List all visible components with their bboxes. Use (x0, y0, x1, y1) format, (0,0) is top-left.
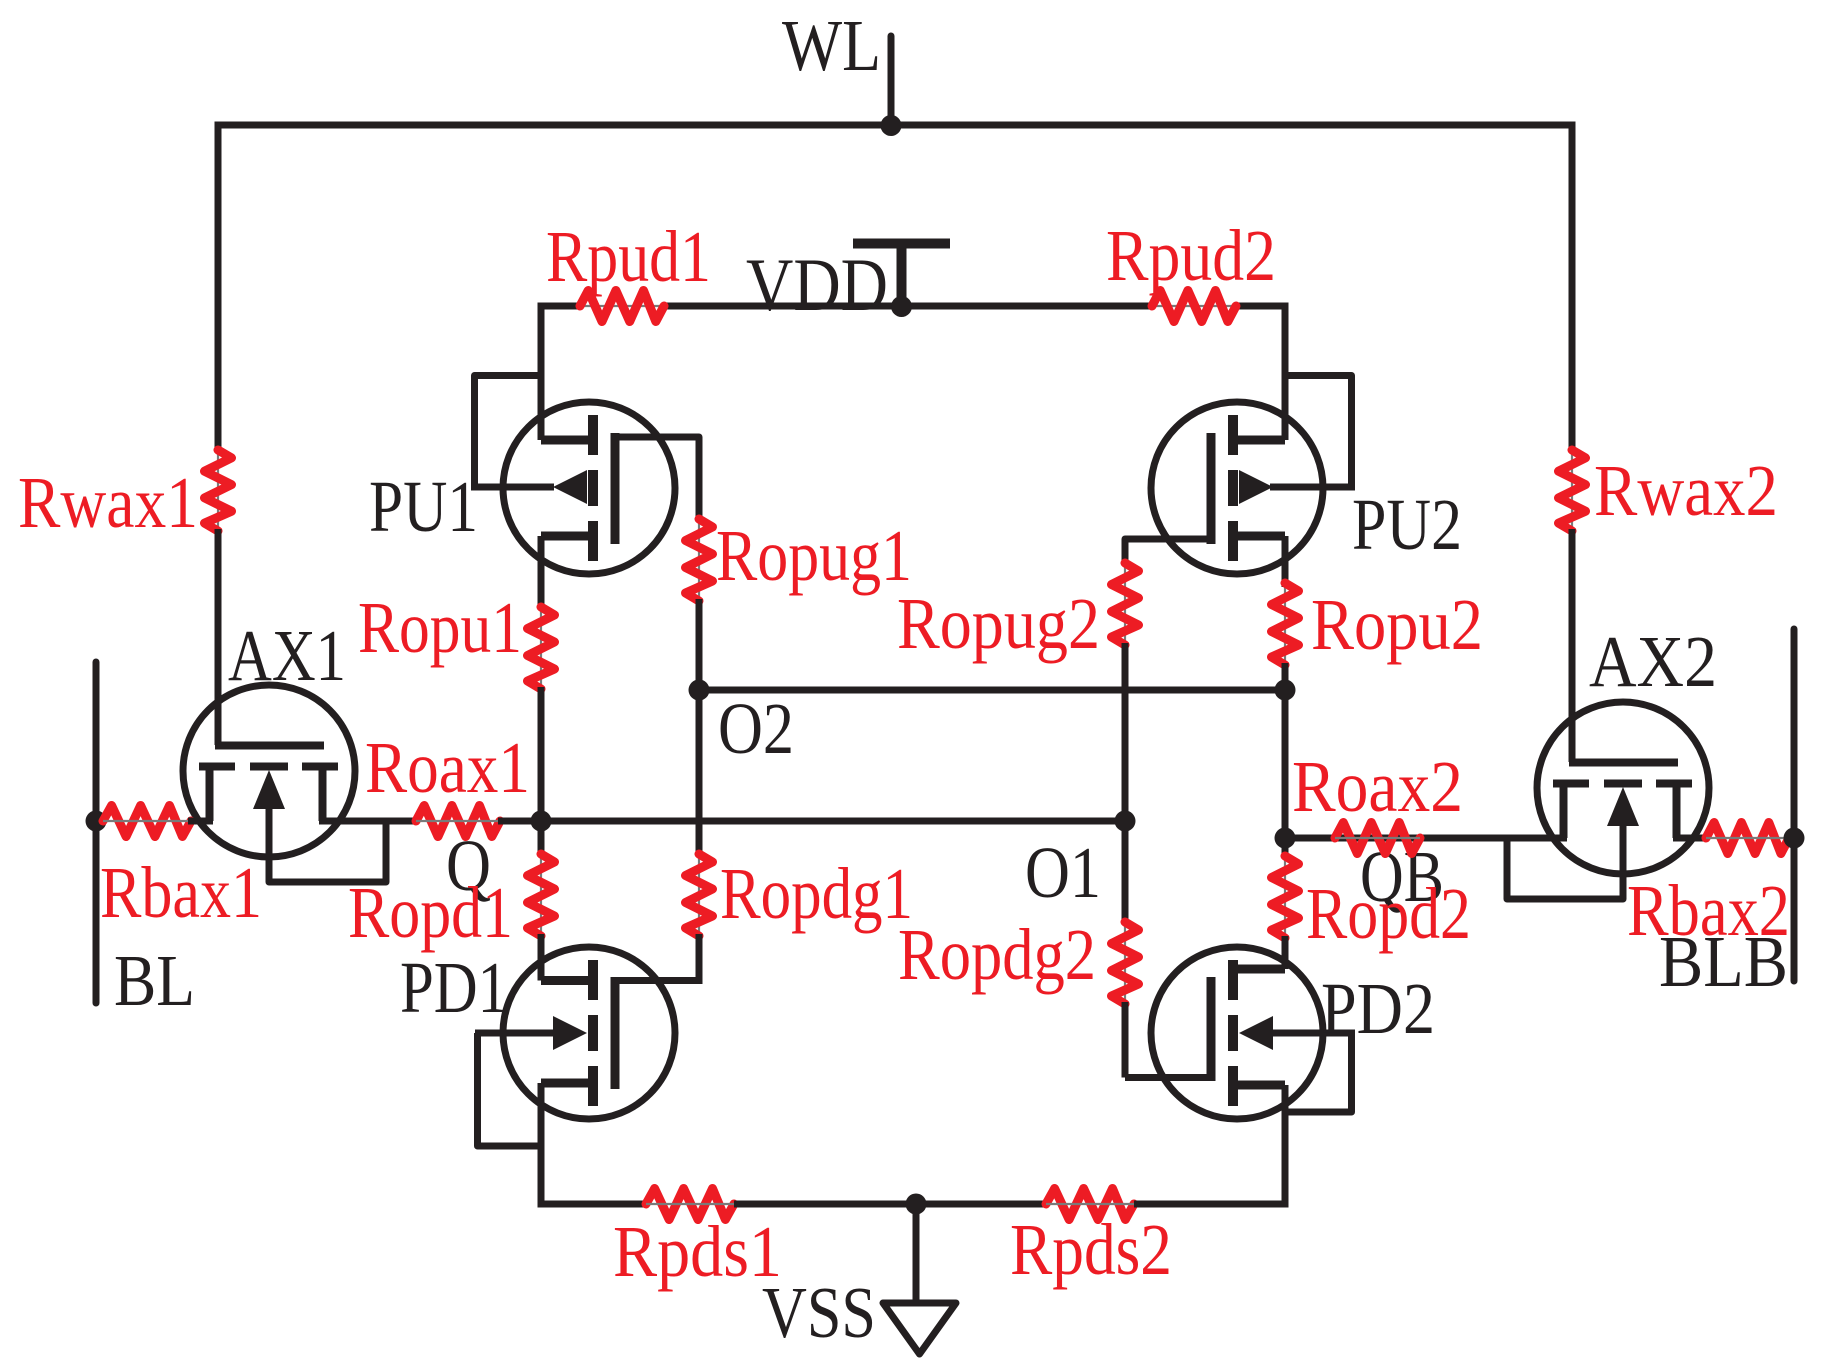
PD1 drain contact (541, 1079, 597, 1088)
svg-text:Ropug2: Ropug2 (897, 583, 1100, 664)
junction O2 left (689, 680, 710, 701)
svg-text:O1: O1 (1025, 832, 1101, 913)
wire PD2 bulk (1270, 1030, 1355, 1037)
wire PD1 gate tap (615, 977, 699, 984)
transistor PU2 circle (1151, 402, 1323, 574)
svg-text:Ropd2: Ropd2 (1306, 873, 1471, 954)
wire QB vertical upper (1282, 663, 1289, 858)
resistor Rbax2 (1706, 823, 1789, 854)
wire VSS rail seg1 (538, 1201, 647, 1208)
PU2 drain contact (1229, 532, 1285, 541)
junction VSS (906, 1194, 927, 1215)
pin Ropug1 underline (698, 519, 700, 601)
PU1 source contact (541, 436, 597, 445)
PD2 channel bar (1228, 960, 1238, 1000)
wire PD1 source up (538, 934, 545, 981)
transistor PD1 circle (503, 947, 675, 1119)
resistor Ropu2 (1272, 583, 1299, 665)
svg-text:WL: WL (782, 5, 881, 86)
AX2 bulk arrow (1607, 787, 1639, 826)
wire O1 rail (498, 818, 1125, 825)
pin Ropdg1 underline (698, 854, 700, 936)
svg-text:PD2: PD2 (1321, 968, 1435, 1049)
wire gate1 low (696, 934, 703, 984)
wire Rbax1 to AX1 (188, 818, 213, 825)
resistor Rpds1 (646, 1189, 734, 1220)
PU1 bulk arrow (553, 470, 587, 504)
PU1 gate plate (611, 433, 620, 544)
wire VSS rail seg3 (1134, 1201, 1289, 1208)
wire PU2 gate tap (1125, 539, 1211, 565)
junction WL (881, 115, 902, 136)
PU1 channel bar (588, 415, 598, 455)
wire PD2 source up (1282, 936, 1289, 969)
wire VDD rail seg1 (541, 303, 580, 310)
wire WL right drop lower (1569, 529, 1576, 762)
pin Ropdg2 underline (1124, 922, 1126, 1004)
junction Q (531, 811, 552, 832)
ground VSS symbol (883, 1303, 956, 1354)
resistor Ropug1 (686, 519, 713, 601)
wire WL stub (888, 36, 895, 125)
wire PU2 source up (1282, 303, 1289, 441)
transistor AX2 circle (1537, 702, 1709, 874)
PD2 source contact (1229, 965, 1285, 974)
AX1 bulk arrow (253, 770, 285, 809)
pin Rpds2 underline (1046, 1203, 1134, 1205)
resistor Rpud1 (580, 291, 664, 322)
resistor Ropd1 (528, 854, 555, 936)
resistor Rpds2 (1046, 1189, 1134, 1220)
pin Rbax1 underline (103, 820, 191, 822)
svg-text:Roax2: Roax2 (1292, 746, 1463, 827)
junction QB (1275, 828, 1296, 849)
junction BLB (1784, 828, 1805, 849)
pin Rwax2 underline (1571, 450, 1573, 531)
junction O2 right (1275, 680, 1296, 701)
power VDD symbol (853, 239, 950, 249)
svg-text:Ropdg2: Ropdg2 (898, 914, 1096, 995)
wire WL right drop upper (1569, 122, 1576, 453)
pin Roax2 underline (1335, 837, 1420, 839)
wire O2 rail (699, 687, 1285, 694)
PD1 gate plate (611, 977, 620, 1089)
wire PU1 drain down (538, 536, 545, 609)
AX2 left contact (1560, 780, 1568, 838)
wire PU2 bulk tie loop (1285, 376, 1352, 488)
svg-text:Ropdg1: Ropdg1 (720, 853, 913, 934)
wire PU2 bulk (1270, 484, 1355, 491)
svg-text:BL: BL (114, 940, 195, 1021)
svg-text:Rpud2: Rpud2 (1106, 215, 1276, 296)
svg-text:PD1: PD1 (400, 947, 508, 1028)
transistor PD2 circle (1151, 947, 1323, 1119)
wire PD1 bulk (475, 1030, 554, 1037)
PD2 drain contact (1229, 1081, 1285, 1090)
pin Ropd2 underline (1284, 856, 1286, 938)
PD2 bulk arrow (1239, 1016, 1273, 1050)
PU1 drain contact (541, 532, 597, 541)
junction O1 (1115, 811, 1136, 832)
PD1 source contact (541, 976, 597, 985)
AX1 left contact (206, 763, 214, 821)
pin Rpud1 underline (580, 305, 664, 307)
transistor AX1 circle (183, 685, 355, 857)
wire WL left drop lower (215, 529, 222, 745)
PU2 source contact (1229, 436, 1285, 445)
AX1 right contact (319, 763, 327, 821)
pin Rpud2 underline (1152, 305, 1236, 307)
resistor Rbax1 (103, 806, 191, 837)
AX1 channel bar (199, 763, 235, 771)
AX2 channel bar (1553, 780, 1589, 788)
svg-text:Rpds2: Rpds2 (1010, 1209, 1172, 1290)
wire PU1 bulk tie loop (475, 376, 542, 488)
svg-text:Rwax2: Rwax2 (1594, 450, 1778, 531)
pin Rbax2 underline (1706, 837, 1789, 839)
transistor PU1 circle (503, 402, 675, 574)
svg-text:Rpud1: Rpud1 (546, 216, 711, 297)
svg-text:VSS: VSS (762, 1272, 876, 1353)
pin Ropu1 underline (540, 607, 542, 689)
wire AX1 bulk tie loop (269, 804, 386, 882)
svg-text:Rpds1: Rpds1 (613, 1211, 782, 1292)
svg-text:Ropug1: Ropug1 (716, 515, 912, 596)
svg-text:Ropu1: Ropu1 (358, 587, 522, 668)
wire PD1 drain down (538, 1083, 545, 1201)
junction BL (86, 811, 107, 832)
wire AX2 bulk tie loop (1507, 821, 1623, 899)
wire PD2 bulk tie loop (1285, 1033, 1352, 1112)
wire gate1 lower mid (696, 688, 703, 856)
svg-text:VDD: VDD (746, 244, 888, 327)
wire gate2 mid (1122, 643, 1129, 924)
resistor Ropdg1 (686, 854, 713, 936)
svg-text:AX1: AX1 (228, 615, 346, 696)
resistor Rwax2 (1559, 450, 1586, 531)
svg-text:Rbax1: Rbax1 (100, 852, 262, 933)
wire PU1 gate tap (615, 437, 699, 521)
PU2 bulk arrow (1239, 470, 1273, 504)
wire gate2 low (1122, 1002, 1129, 1078)
PD2 gate plate (1207, 977, 1216, 1081)
resistor Ropdg2 (1112, 922, 1139, 1004)
wire BLB line (1791, 629, 1798, 981)
pin Roax1 underline (416, 820, 500, 822)
svg-text:BLB: BLB (1659, 921, 1788, 1002)
wire AX2 to Rbax2 (1673, 835, 1708, 842)
junction VDD (891, 296, 912, 317)
svg-text:AX2: AX2 (1589, 621, 1717, 702)
wire VSS rail seg2 (734, 1201, 1046, 1208)
AX2 right contact (1673, 780, 1681, 838)
PD1 channel bar (588, 960, 598, 1000)
wire PU2 drain down (1282, 536, 1289, 587)
wire WL left drop upper (215, 122, 222, 453)
wire PD2 gate tap (1125, 1074, 1211, 1081)
ground VSS stub (913, 1204, 920, 1301)
svg-text:Rwax1: Rwax1 (18, 462, 198, 543)
resistor Ropu1 (528, 607, 555, 689)
wire BL line (93, 662, 100, 1003)
wire QB rail (1285, 835, 1567, 842)
PU2 gate plate (1207, 433, 1216, 544)
wire PD1 bulk tie loop (478, 1033, 542, 1146)
wire VDD rail seg3 (1236, 303, 1284, 310)
wire gate1 mid (696, 599, 703, 690)
wire PU1 source up (538, 303, 545, 441)
svg-text:Ropu2: Ropu2 (1311, 584, 1483, 665)
svg-text:Ropd1: Ropd1 (348, 872, 513, 953)
PD1 bulk arrow (553, 1016, 587, 1050)
wire PD2 drain down (1282, 1085, 1289, 1201)
resistor Ropug2 (1112, 563, 1139, 645)
wire AX1 to Roax1 (319, 818, 418, 825)
pin Ropd1 underline (540, 854, 542, 936)
resistor Roax1 (416, 806, 500, 837)
AX2 gate plate (1569, 759, 1678, 767)
pin Ropug2 underline (1124, 563, 1126, 645)
wire Q vertical upper (538, 687, 545, 856)
AX1 gate plate (215, 742, 324, 750)
pin Ropu2 underline (1284, 583, 1286, 665)
pin Rwax1 underline (217, 450, 219, 531)
resistor Rpud2 (1152, 291, 1236, 322)
wire PU1 bulk (471, 484, 554, 491)
wire WL rail (215, 122, 1576, 129)
svg-text:O2: O2 (718, 688, 794, 769)
svg-text:PU1: PU1 (369, 466, 478, 547)
svg-text:Roax1: Roax1 (365, 727, 530, 808)
resistor Rwax1 (205, 450, 232, 531)
PU2 channel bar (1228, 415, 1238, 455)
pin Rpds1 underline (646, 1203, 734, 1205)
resistor Ropd2 (1272, 856, 1299, 938)
wire VDD rail seg2 (664, 303, 1152, 310)
svg-text:PU2: PU2 (1352, 484, 1462, 565)
resistor Roax2 (1335, 823, 1420, 854)
